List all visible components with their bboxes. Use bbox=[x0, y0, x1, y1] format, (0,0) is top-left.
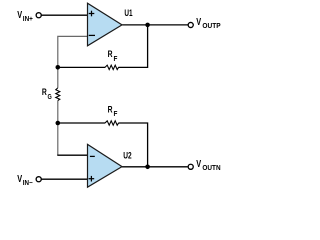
svg-text:V: V bbox=[196, 159, 201, 170]
svg-text:U1: U1 bbox=[124, 8, 133, 19]
svg-text:IN+: IN+ bbox=[23, 16, 33, 23]
svg-text:G: G bbox=[48, 94, 53, 101]
svg-text:IN−: IN− bbox=[23, 180, 33, 187]
svg-text:R: R bbox=[108, 49, 113, 59]
svg-text:R: R bbox=[42, 87, 47, 97]
svg-text:U2: U2 bbox=[123, 151, 131, 162]
svg-text:F: F bbox=[114, 56, 119, 63]
svg-text:V: V bbox=[17, 10, 22, 21]
svg-text:OUTP: OUTP bbox=[202, 23, 221, 30]
svg-text:R: R bbox=[108, 104, 113, 114]
svg-text:F: F bbox=[114, 111, 119, 118]
svg-text:V: V bbox=[17, 174, 22, 185]
svg-text:V: V bbox=[196, 17, 201, 28]
svg-text:OUTN: OUTN bbox=[202, 165, 220, 172]
